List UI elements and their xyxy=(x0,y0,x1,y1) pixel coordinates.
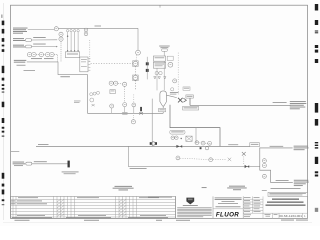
bubble pair below xyxy=(171,136,175,140)
dashed link down to FIC xyxy=(135,55,138,60)
row2 wire xyxy=(32,39,58,41)
G_TOPLEFT signal rows xyxy=(13,26,140,78)
bubble right of box F xyxy=(168,62,173,67)
wire row1 to node xyxy=(28,29,54,31)
signal dashed drop xyxy=(134,66,136,75)
PSV valve dark xyxy=(178,98,183,103)
line label xyxy=(34,160,47,163)
vessel tag text xyxy=(170,91,179,94)
left edge marks xyxy=(1,15,3,18)
dark mark in cluster xyxy=(200,147,202,149)
logo box line xyxy=(213,208,243,210)
note small xyxy=(202,186,207,189)
bubble right lower xyxy=(173,79,177,83)
row3 offpage connector xyxy=(26,45,32,48)
vessel V-1009 flare KO pot xyxy=(160,91,167,106)
small bubble pair under box F xyxy=(155,71,158,74)
closed valve X xyxy=(242,152,246,156)
bubbles on suction line xyxy=(110,104,114,108)
flare header line xyxy=(190,104,291,106)
dashed stub above xyxy=(133,94,135,102)
io drop wires xyxy=(68,32,79,52)
relay box C xyxy=(110,90,115,94)
valve on suction line xyxy=(92,104,95,106)
destination text right mid xyxy=(294,146,309,150)
wire drop to bubble xyxy=(137,28,139,50)
offpage connector xyxy=(26,162,32,165)
logic box F xyxy=(153,62,165,68)
pump circle xyxy=(152,142,155,145)
G_UNDERBORDER texts xyxy=(15,220,309,221)
hatch marks group1 xyxy=(57,200,64,217)
line label box upper xyxy=(183,106,199,110)
row4 line labels xyxy=(31,57,42,60)
block divider xyxy=(175,196,177,218)
line label pill lower xyxy=(170,130,185,134)
junction dot xyxy=(181,138,182,139)
G_RIGHTTOP psv line to flare xyxy=(167,87,307,109)
G_TITLEBLOCK xyxy=(243,188,307,218)
drawing title lines xyxy=(266,199,306,206)
io drop arrowheads xyxy=(67,50,68,52)
junction node xyxy=(67,36,68,37)
pump vertical from vessel area xyxy=(151,99,153,147)
note text left of console riser xyxy=(74,100,81,103)
G_MID console-to-vessel xyxy=(74,61,163,124)
small bubbles chain near pump xyxy=(90,91,100,102)
bottom band entries xyxy=(12,215,168,218)
check valve dark on line A xyxy=(176,145,182,148)
sheet edge faint xyxy=(2,3,4,220)
bubble row signal dashes xyxy=(36,54,57,56)
line number under xyxy=(184,107,197,110)
reducer blob on line xyxy=(122,112,128,114)
tiny ref xyxy=(262,189,267,192)
relief arrows xyxy=(154,77,156,79)
wire xyxy=(32,163,68,165)
instrument bubble FY shared display xyxy=(133,75,139,81)
approvals label column xyxy=(243,196,307,218)
G_BUBTEXT instrument tag smudges xyxy=(29,28,266,176)
to-equip text below xyxy=(62,171,79,174)
bubble below line with dashed stem xyxy=(131,120,135,124)
dashes linking bubbles xyxy=(118,83,123,86)
line A pill label xyxy=(250,143,260,147)
wire top header xyxy=(58,27,138,29)
line label pill on outlet xyxy=(159,108,166,111)
label above line A left xyxy=(38,143,49,146)
pump block valves dark xyxy=(150,142,152,145)
PSV tag pill xyxy=(186,95,193,98)
pump caption xyxy=(115,185,133,188)
row3 wire with arrow xyxy=(32,46,57,48)
bottom row cells xyxy=(273,213,303,218)
G_BOTTOMFLOW main condensate path xyxy=(36,99,309,151)
branch from line A down xyxy=(127,146,129,166)
destination text right low xyxy=(294,180,309,186)
tag text above cluster xyxy=(159,45,170,48)
vessel outlet wire xyxy=(162,106,164,113)
zone tick top center xyxy=(159,5,161,7)
faint note text xyxy=(11,150,19,153)
instrument bubble FIC shared display xyxy=(133,61,139,67)
vertical drop from line A xyxy=(260,148,293,183)
signal dashed drop 2 xyxy=(134,80,136,90)
G_FLUOR contractor block xyxy=(213,196,243,218)
aux box E xyxy=(167,56,173,60)
box B port ticks xyxy=(88,59,90,71)
drain header line xyxy=(128,166,259,168)
G_VESSEL column and top cluster xyxy=(146,46,179,114)
destination text block xyxy=(290,101,307,109)
column lines xyxy=(13,196,137,218)
flare line label xyxy=(273,101,287,104)
line A to right edge xyxy=(259,147,292,149)
console tag text xyxy=(60,75,70,78)
row2 line label xyxy=(33,36,46,39)
outlet to PSV xyxy=(167,95,177,97)
row text block xyxy=(13,162,26,166)
svg-text:00-SK-1234-001: 00-SK-1234-001 xyxy=(279,214,302,218)
right edge marks xyxy=(315,4,318,11)
hand valve black squares xyxy=(146,62,149,65)
signal drop dashed wires xyxy=(58,41,62,61)
bubbles above pump row xyxy=(109,81,113,85)
signal bubbles above drain xyxy=(176,156,180,160)
main condensate line A xyxy=(36,145,250,147)
legal paragraph xyxy=(177,207,212,217)
scale text xyxy=(265,213,271,216)
wires down to vessel top xyxy=(156,68,158,90)
instrument bubble TI xyxy=(136,50,141,55)
check valve dark on drain xyxy=(245,165,250,168)
exchanger box G xyxy=(186,136,192,141)
svg-text:FLUOR: FLUOR xyxy=(216,211,239,218)
row4 text xyxy=(14,60,26,66)
drop at 196 xyxy=(195,128,197,144)
controller box B xyxy=(80,57,88,72)
stamp strip above title xyxy=(268,192,308,196)
note text mid xyxy=(24,69,36,72)
bubble left of control valve xyxy=(132,103,136,107)
drain label under xyxy=(130,167,147,170)
row2 text xyxy=(13,38,25,41)
compressor instrument cluster xyxy=(195,141,212,150)
note text block row1 xyxy=(13,28,28,34)
wire down xyxy=(163,51,165,56)
connector pill xyxy=(161,49,167,51)
solenoid box D xyxy=(153,56,165,61)
PSV outlet stem xyxy=(189,98,191,105)
label on line A right xyxy=(228,143,238,146)
U-loop from suction line xyxy=(170,105,220,147)
marshalling box A xyxy=(65,52,79,58)
io drop circles xyxy=(66,30,79,32)
bubble row LIC group xyxy=(27,52,54,56)
header text smudges xyxy=(18,197,172,198)
dashed signal right side xyxy=(177,53,179,95)
node bubble on row1 xyxy=(54,27,58,31)
client logo emblem xyxy=(186,198,194,205)
signal dashed bus to FIC xyxy=(91,63,133,65)
vessel caption xyxy=(229,185,245,188)
bubbles beside drop xyxy=(262,159,266,163)
bubble pair right of header xyxy=(84,28,88,32)
client name line xyxy=(183,204,198,207)
dashed drop to valve xyxy=(124,87,126,102)
control valve body xyxy=(139,112,143,114)
row lines xyxy=(11,199,176,217)
spec break flag dark xyxy=(68,161,70,168)
bubble right of vessel top xyxy=(171,88,174,91)
drain dest label xyxy=(276,179,289,182)
bubbles pair row2 end xyxy=(59,32,63,36)
hatch marks group2 xyxy=(119,200,126,217)
row4 wire to console xyxy=(27,62,88,75)
row2 offpage connector xyxy=(26,39,32,42)
row3 text xyxy=(13,45,25,48)
G_DRAIN lower right path xyxy=(128,146,308,186)
small box above PSV xyxy=(183,87,190,90)
approvals text smudges xyxy=(244,197,261,217)
G_LEGAL client block xyxy=(176,196,214,218)
control valve actuator xyxy=(140,107,142,111)
G_REVTABLE revision table xyxy=(11,196,176,218)
G_CAPTIONS equipment titles xyxy=(113,186,267,191)
cluster dashes xyxy=(199,142,201,144)
row3 line label xyxy=(33,43,46,46)
G_LEFTLOW battery limit row xyxy=(11,151,79,174)
console vertical wire xyxy=(88,75,164,114)
revision entry text xyxy=(11,201,47,205)
dashed stub xyxy=(243,156,245,164)
dashed riser right of box B xyxy=(89,40,91,62)
table frame xyxy=(11,196,176,218)
top text rows xyxy=(215,198,242,208)
